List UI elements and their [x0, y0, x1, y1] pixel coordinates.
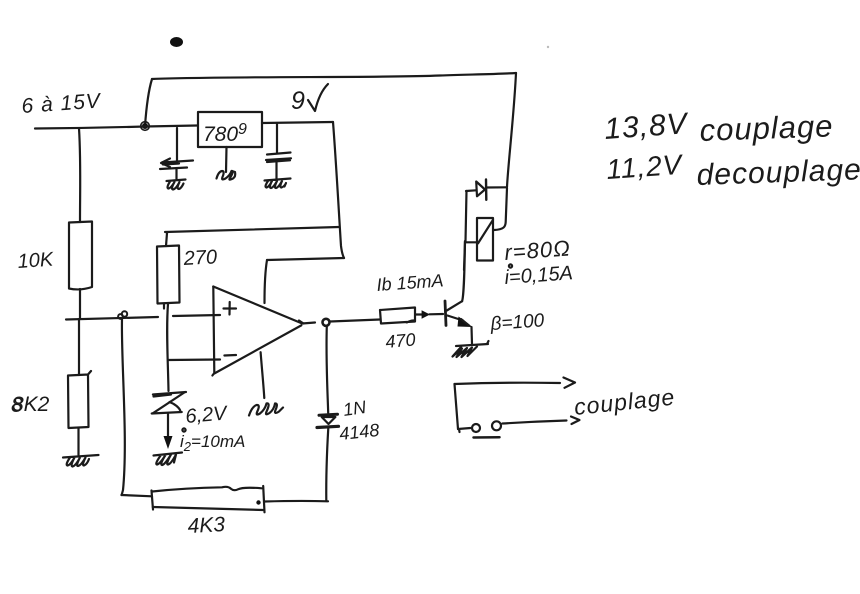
svg-text:1N: 1N: [342, 397, 369, 420]
svg-text:9: 9: [291, 87, 305, 115]
ground under C1: [167, 180, 186, 190]
wire top rail: [152, 73, 516, 79]
svg-text:i=0,15A: i=0,15A: [504, 262, 574, 289]
resistor R2 8K2: [78, 319, 80, 375]
ground zener: [154, 453, 183, 466]
capacitor C2: [276, 123, 278, 153]
svg-text:couplage: couplage: [573, 384, 677, 420]
node input junction: [142, 123, 148, 129]
node output: [323, 319, 330, 326]
svg-text:6,2V: 6,2V: [185, 402, 230, 428]
wire to 270 top: [165, 227, 339, 232]
zener D2 6,2V: [153, 392, 186, 397]
svg-text:270: 270: [182, 246, 217, 270]
svg-text:13,8V: 13,8V: [603, 107, 690, 146]
resistor R3 270: [166, 233, 167, 246]
svg-text:couplage: couplage: [699, 108, 834, 148]
wire junction riser: [145, 79, 152, 126]
wire collector riser: [462, 242, 465, 302]
svg-text:r=80Ω: r=80Ω: [504, 235, 572, 265]
switch couplage contacts: [455, 383, 561, 384]
node junction knot: [118, 314, 123, 319]
transistor Q1: [445, 301, 446, 325]
svg-text:i2=10mA: i2=10mA: [180, 432, 245, 454]
wire right side drop: [507, 73, 516, 187]
wire op-amp minus stub: [168, 358, 220, 361]
svg-text:decouplage: decouplage: [696, 153, 860, 192]
svg-text:β=100: β=100: [489, 310, 545, 335]
wire and arrow to base: [416, 313, 443, 316]
svg-text:780: 780: [203, 123, 238, 146]
paper speck: [547, 46, 549, 48]
svg-text:9: 9: [238, 121, 247, 138]
resistor R4 470: [380, 308, 415, 324]
svg-text:6 à 15V: 6 à 15V: [21, 89, 103, 118]
wire 9V rail: [262, 122, 333, 123]
wire to op-amp V+: [267, 258, 344, 260]
wire to 470: [330, 320, 380, 322]
wire 9V drop: [333, 122, 344, 258]
wire op-amp output: [302, 323, 315, 324]
wire relay left rail: [464, 191, 467, 270]
svg-text:8: 8: [11, 394, 23, 417]
svg-text:10K: 10K: [17, 248, 56, 273]
diode D3 1N4148: [326, 326, 328, 413]
op-amp V- pin: [261, 352, 265, 398]
relay coil K1: [466, 241, 477, 243]
ink blob: [170, 37, 183, 47]
svg-text:470: 470: [385, 329, 417, 352]
svg-text:4K3: 4K3: [187, 513, 226, 538]
ground regulator: [225, 147, 228, 172]
wire input rail: [35, 126, 197, 129]
regulator U1 7809: [198, 112, 262, 147]
svg-text:4148: 4148: [338, 420, 380, 444]
svg-text:11,2V: 11,2V: [605, 149, 684, 185]
label i2=10mA: [182, 428, 185, 431]
capacitor C1: [176, 128, 178, 161]
diode D1 flyback: [466, 189, 476, 192]
resistor R5 4K3: [152, 487, 261, 492]
resistor R1 10K: [79, 129, 80, 223]
wire feedback drop: [122, 319, 125, 495]
wire input node rail: [66, 317, 158, 320]
ground op-amp: [249, 403, 283, 415]
svg-text:Ib 15mA: Ib 15mA: [376, 270, 444, 295]
ground under 8K2: [63, 455, 99, 467]
ground transistor: [456, 341, 489, 346]
op-amp U2: [212, 287, 214, 376]
ground under C2: [265, 179, 291, 189]
